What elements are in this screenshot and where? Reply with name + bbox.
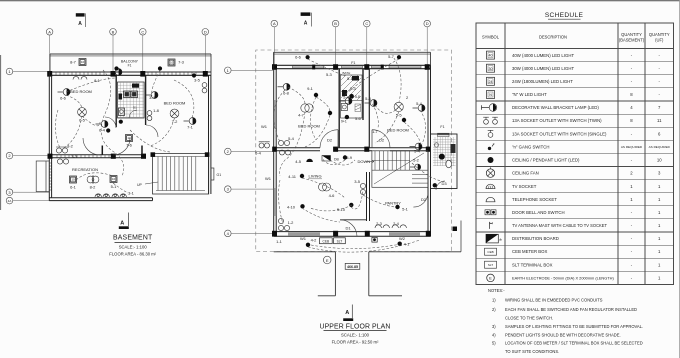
svg-text:13A SOCKET OUTLET WITH SWITCH: 13A SOCKET OUTLET WITH SWITCH (TWIN): [512, 118, 602, 123]
svg-text:D2: D2: [421, 197, 427, 202]
svg-text:4-6: 4-6: [329, 193, 336, 198]
svg-text:A: A: [48, 29, 51, 34]
svg-text:W1: W1: [265, 176, 272, 181]
svg-text:DOOR BELL AND SWITCH: DOOR BELL AND SWITCH: [512, 210, 565, 215]
svg-text:CEILING FAN: CEILING FAN: [512, 171, 539, 176]
svg-text:DB: DB: [334, 158, 339, 162]
svg-text:F1: F1: [440, 125, 444, 129]
svg-text:E: E: [489, 276, 492, 281]
svg-text:SLT TERMINAL BOX: SLT TERMINAL BOX: [512, 262, 553, 267]
svg-text:24: 24: [489, 80, 493, 84]
svg-text:EARTH ELECTRODE - 50mm (DIA) X: EARTH ELECTRODE - 50mm (DIA) X 2000mm (L…: [512, 276, 614, 281]
svg-text:4-11: 4-11: [288, 174, 296, 179]
svg-text:QUANTITY: QUANTITY: [621, 32, 642, 37]
svg-text:6-6: 6-6: [295, 55, 302, 60]
svg-text:7-3: 7-3: [178, 60, 185, 65]
svg-text:1-1: 1-1: [276, 239, 283, 244]
svg-text:BED ROOM: BED ROOM: [164, 101, 186, 106]
svg-text:D1: D1: [133, 106, 137, 110]
svg-text:5-4: 5-4: [288, 136, 295, 141]
svg-text:40W (4000 LUMEN) LED LIGHT: 40W (4000 LUMEN) LED LIGHT: [512, 53, 574, 58]
svg-text:A: A: [345, 310, 349, 316]
svg-text:F1: F1: [128, 64, 132, 68]
svg-text:B: B: [334, 21, 337, 26]
svg-text:EACH FAN SHALL BE SWITCHED AND: EACH FAN SHALL BE SWITCHED AND FAN REGUL…: [505, 307, 637, 312]
svg-text:(BASEMENT): (BASEMENT): [619, 38, 645, 43]
svg-text:N: N: [489, 93, 492, 97]
svg-text:3-4: 3-4: [149, 95, 156, 100]
svg-text:10: 10: [81, 60, 85, 64]
svg-text:3-2: 3-2: [67, 144, 74, 149]
svg-text:E: E: [326, 258, 329, 263]
svg-text:AS REQUIRED: AS REQUIRED: [649, 145, 671, 149]
svg-text:1-7: 1-7: [372, 129, 379, 134]
svg-text:10: 10: [657, 158, 662, 163]
svg-text:5-6: 5-6: [355, 116, 362, 121]
svg-text:B: B: [112, 29, 115, 34]
svg-text:SLT: SLT: [337, 240, 343, 244]
svg-text:3-5: 3-5: [194, 78, 201, 83]
svg-text:5-4: 5-4: [365, 96, 372, 101]
svg-text:UP: UP: [137, 183, 143, 187]
svg-text:"N" W LED LIGHT: "N" W LED LIGHT: [512, 92, 547, 97]
svg-text:DESCRIPTION: DESCRIPTION: [539, 35, 567, 40]
svg-text:2-3: 2-3: [376, 221, 383, 226]
svg-text:5): 5): [492, 341, 496, 346]
svg-text:C: C: [365, 21, 368, 26]
svg-text:QUANTITY: QUANTITY: [649, 32, 670, 37]
svg-text:CEB: CEB: [487, 250, 493, 254]
svg-text:3-1: 3-1: [128, 191, 135, 196]
svg-text:TELEPHONE SOCKET: TELEPHONE SOCKET: [512, 197, 557, 202]
svg-text:5-3: 5-3: [350, 86, 357, 91]
svg-text:1): 1): [492, 298, 496, 303]
svg-text:4-1: 4-1: [404, 242, 411, 247]
svg-text:5-7: 5-7: [388, 54, 395, 59]
svg-text:BED ROOM: BED ROOM: [70, 89, 92, 94]
svg-text:PANTRY: PANTRY: [385, 201, 401, 206]
svg-text:5-3: 5-3: [326, 72, 333, 77]
svg-text:A: A: [304, 20, 308, 26]
svg-text:FLOOR AREA - 92.50 m²: FLOOR AREA - 92.50 m²: [332, 340, 379, 345]
svg-text:7-1: 7-1: [187, 125, 194, 130]
svg-text:SAMPLES OF LIGHTING FITTINGS T: SAMPLES OF LIGHTING FITTINGS TO BE SUBMI…: [505, 324, 643, 329]
svg-text:5-4: 5-4: [414, 149, 421, 154]
svg-text:UPPER FLOOR PLAN: UPPER FLOOR PLAN: [320, 323, 391, 330]
svg-text:9+1: 9+1: [341, 120, 347, 124]
svg-text:4A: 4A: [8, 199, 12, 203]
svg-text:G1: G1: [217, 173, 222, 177]
svg-text:1-8: 1-8: [153, 108, 160, 113]
svg-text:5-4: 5-4: [416, 101, 423, 106]
svg-text:F1: F1: [351, 61, 355, 65]
svg-text:40: 40: [489, 54, 493, 58]
svg-text:11: 11: [657, 118, 662, 123]
svg-text:PENDENT LIGHTS SHOULD BE WITH: PENDENT LIGHTS SHOULD BE WITH DECORATIVE…: [505, 333, 621, 338]
svg-text:W1: W1: [300, 236, 307, 241]
svg-text:3-5: 3-5: [354, 179, 361, 184]
svg-text:4-7: 4-7: [298, 113, 305, 118]
svg-text:RECREATION: RECREATION: [72, 167, 98, 172]
svg-text:3-3: 3-3: [71, 154, 78, 159]
svg-text:CEILING / PENDANT LIGHT (LED): CEILING / PENDANT LIGHT (LED): [512, 158, 580, 163]
svg-text:30: 30: [489, 67, 493, 71]
svg-text:24W (1800LUMEN) LED LIGHT: 24W (1800LUMEN) LED LIGHT: [512, 79, 573, 84]
svg-text:SCALE:- 1:100: SCALE:- 1:100: [119, 244, 148, 249]
svg-text:D: D: [426, 21, 429, 26]
svg-text:D1: D1: [345, 226, 351, 231]
svg-text:TO SUIT SITE CONDITIONS.: TO SUIT SITE CONDITIONS.: [505, 349, 559, 354]
svg-text:DECORATIVE WALL BRACKET LAMP (: DECORATIVE WALL BRACKET LAMP (LED): [512, 105, 599, 110]
svg-text:CEB: CEB: [323, 240, 330, 244]
svg-text:5-1: 5-1: [111, 184, 118, 189]
svg-text:4-2: 4-2: [311, 238, 318, 243]
svg-text:5-8: 5-8: [355, 95, 360, 99]
svg-text:(UF): (UF): [655, 38, 664, 43]
svg-text:db: db: [499, 237, 503, 241]
svg-text:DISTRIBUTION BOARD: DISTRIBUTION BOARD: [512, 236, 559, 241]
svg-text:466.85: 466.85: [347, 265, 358, 269]
svg-text:CLOSE TO THE SWITCH.: CLOSE TO THE SWITCH.: [505, 316, 553, 321]
svg-text:SCALE:- 1:100: SCALE:- 1:100: [341, 333, 370, 338]
svg-text:W1: W1: [261, 124, 268, 129]
svg-text:D: D: [204, 29, 207, 34]
svg-text:4-5: 4-5: [295, 159, 302, 164]
svg-text:C: C: [141, 29, 144, 34]
svg-text:8-7: 8-7: [70, 60, 77, 65]
svg-text:4): 4): [492, 333, 496, 338]
svg-text:10: 10: [127, 136, 131, 140]
svg-text:6-5: 6-5: [79, 118, 86, 123]
svg-text:5-1: 5-1: [347, 76, 354, 81]
svg-text:WIRING SHALL BE IN EMBEDDED PV: WIRING SHALL BE IN EMBEDDED PVC CONDUITS: [505, 298, 603, 303]
svg-text:6-6: 6-6: [60, 96, 67, 101]
svg-text:1-2: 1-2: [288, 220, 295, 225]
svg-text:30W (4000 LUMEN) LED LIGHT: 30W (4000 LUMEN) LED LIGHT: [512, 66, 574, 71]
svg-text:TV ANTENNA MAST WITH CABLE TO: TV ANTENNA MAST WITH CABLE TO TV SOCKET: [512, 223, 608, 228]
svg-text:7-6: 7-6: [126, 143, 133, 148]
svg-text:D2: D2: [327, 138, 333, 143]
svg-text:8-2: 8-2: [90, 185, 97, 190]
svg-text:A: A: [78, 21, 82, 27]
svg-text:6-4: 6-4: [99, 128, 106, 133]
svg-text:5-9: 5-9: [346, 155, 353, 160]
svg-text:BATH: BATH: [343, 71, 351, 75]
svg-text:AS REQUIRED: AS REQUIRED: [621, 145, 643, 149]
svg-text:13A SOCKET OUTLET WITH SWITCH: 13A SOCKET OUTLET WITH SWITCH (SINGLE): [512, 131, 607, 136]
svg-text:TV SOCKET: TV SOCKET: [512, 184, 537, 189]
svg-text:"n" GANG SWITCH: "n" GANG SWITCH: [512, 145, 549, 150]
svg-text:FLOOR AREA - 86.30 m²: FLOOR AREA - 86.30 m²: [109, 252, 156, 257]
svg-text:5-4: 5-4: [343, 95, 350, 100]
svg-text:LIVING: LIVING: [308, 174, 321, 179]
svg-text:W2: W2: [399, 236, 406, 241]
svg-text:2-4: 2-4: [393, 221, 400, 226]
svg-text:10: 10: [170, 61, 174, 65]
svg-text:LOCATION OF CEB METER / SLT TE: LOCATION OF CEB METER / SLT TERMINAL BOX…: [505, 341, 643, 346]
svg-text:5-1: 5-1: [402, 207, 409, 212]
svg-text:CEB METER BOX: CEB METER BOX: [512, 249, 547, 254]
svg-text:10: 10: [71, 178, 75, 182]
svg-text:4-10: 4-10: [287, 205, 296, 210]
svg-text:D3: D3: [441, 181, 447, 186]
svg-text:BASEMENT: BASEMENT: [113, 235, 153, 242]
svg-text:5-4: 5-4: [255, 151, 262, 156]
svg-text:2): 2): [492, 307, 496, 312]
svg-text:A: A: [120, 220, 124, 226]
svg-text:SCHEDULE: SCHEDULE: [545, 12, 584, 19]
svg-text:NOTES:-: NOTES:-: [488, 288, 505, 293]
svg-text:SLT: SLT: [488, 263, 493, 267]
svg-text:9-1: 9-1: [307, 86, 314, 91]
svg-text:5-2: 5-2: [413, 158, 420, 163]
svg-text:6-1: 6-1: [70, 185, 77, 190]
svg-text:SYMBOL: SYMBOL: [482, 35, 500, 40]
svg-text:A: A: [273, 21, 276, 26]
svg-text:BED ROOM: BED ROOM: [298, 124, 320, 129]
svg-text:10: 10: [112, 177, 116, 181]
svg-text:3): 3): [492, 324, 496, 329]
